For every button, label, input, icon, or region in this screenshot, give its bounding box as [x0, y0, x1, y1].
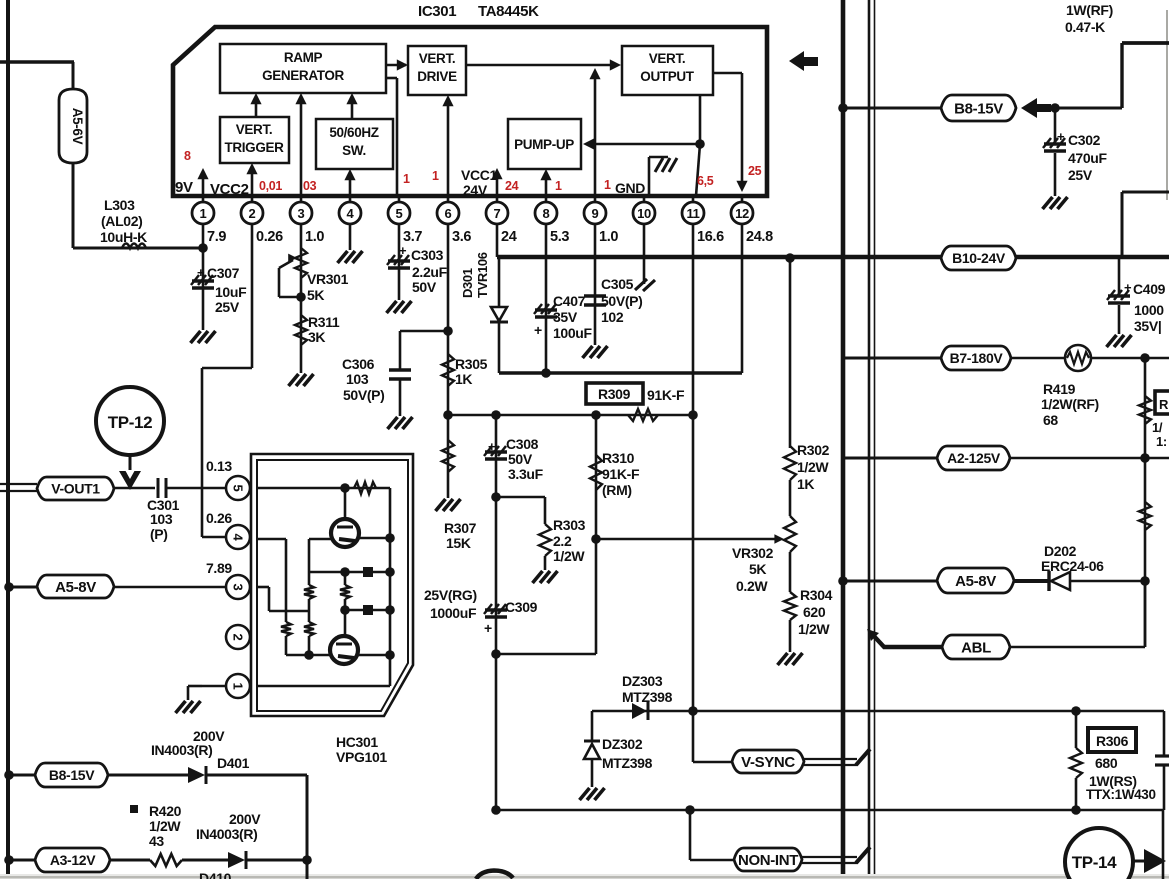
- svg-text:10uF: 10uF: [215, 284, 247, 300]
- svg-text:6,5: 6,5: [697, 174, 714, 188]
- svg-text:A3-12V: A3-12V: [50, 852, 96, 868]
- svg-text:1: 1: [555, 179, 562, 193]
- svg-text:TTX:1W430: TTX:1W430: [1086, 787, 1156, 802]
- svg-text:9: 9: [592, 206, 599, 221]
- svg-text:RAMP: RAMP: [284, 50, 323, 65]
- svg-text:A2-125V: A2-125V: [947, 450, 1001, 466]
- svg-text:DRIVE: DRIVE: [417, 69, 457, 84]
- svg-text:IN4003(R): IN4003(R): [151, 742, 212, 758]
- svg-text:B10-24V: B10-24V: [952, 250, 1006, 266]
- svg-text:1/2W: 1/2W: [798, 621, 830, 637]
- svg-text:0.47-K: 0.47-K: [1065, 19, 1105, 35]
- svg-text:R311: R311: [308, 314, 340, 330]
- svg-text:7: 7: [494, 206, 501, 221]
- svg-text:5K: 5K: [749, 561, 766, 577]
- svg-text:50V(P): 50V(P): [343, 387, 384, 403]
- svg-text:C302: C302: [1068, 132, 1101, 148]
- svg-text:PUMP-UP: PUMP-UP: [514, 137, 574, 152]
- svg-text:5: 5: [231, 485, 246, 492]
- svg-text:50/60HZ: 50/60HZ: [329, 125, 378, 140]
- svg-text:TVR106: TVR106: [475, 252, 490, 298]
- svg-text:C409: C409: [1133, 281, 1166, 297]
- svg-text:2: 2: [249, 206, 256, 221]
- svg-text:1/2W(RF): 1/2W(RF): [1041, 396, 1099, 412]
- svg-text:1: 1: [432, 169, 439, 183]
- svg-text:B8-15V: B8-15V: [954, 100, 1003, 117]
- svg-text:5K: 5K: [307, 287, 324, 303]
- svg-text:1000: 1000: [1134, 302, 1164, 318]
- svg-text:R305: R305: [455, 356, 488, 372]
- svg-text:91K-F: 91K-F: [602, 466, 640, 482]
- svg-text:C407: C407: [553, 293, 586, 309]
- svg-text:9V: 9V: [175, 179, 193, 196]
- svg-text:VR301: VR301: [307, 271, 349, 287]
- svg-text:ERC24-06: ERC24-06: [1041, 558, 1104, 574]
- svg-text:1/2W: 1/2W: [149, 818, 181, 834]
- svg-text:50V(P): 50V(P): [601, 293, 642, 309]
- svg-text:HC301: HC301: [336, 734, 378, 750]
- svg-text:+: +: [488, 439, 496, 454]
- svg-text:R307: R307: [444, 520, 477, 536]
- svg-text:8: 8: [543, 206, 550, 221]
- svg-text:25V: 25V: [215, 299, 240, 315]
- svg-text:VCC1: VCC1: [461, 167, 498, 183]
- svg-text:OUTPUT: OUTPUT: [640, 69, 695, 84]
- svg-text:5.3: 5.3: [550, 229, 569, 245]
- svg-text:1: 1: [231, 683, 246, 690]
- svg-text:D301: D301: [460, 268, 475, 298]
- svg-text:R419: R419: [1043, 381, 1076, 397]
- svg-text:D202: D202: [1044, 543, 1077, 559]
- svg-text:2.2uF: 2.2uF: [412, 264, 448, 280]
- svg-text:3K: 3K: [308, 329, 325, 345]
- svg-text:D401: D401: [217, 755, 250, 771]
- svg-text:43: 43: [149, 833, 164, 849]
- svg-text:TP-12: TP-12: [108, 413, 153, 432]
- svg-text:V-OUT1: V-OUT1: [51, 481, 100, 497]
- svg-text:200V: 200V: [229, 811, 261, 827]
- svg-text:35V|: 35V|: [1134, 318, 1161, 334]
- svg-text:(P): (P): [150, 526, 168, 542]
- svg-text:+: +: [1057, 129, 1065, 144]
- svg-text:A5-6V: A5-6V: [70, 108, 85, 145]
- svg-text:8: 8: [184, 149, 191, 163]
- svg-text:1.0: 1.0: [599, 229, 618, 245]
- svg-text:R302: R302: [797, 442, 830, 458]
- svg-text:2: 2: [231, 634, 246, 641]
- svg-text:R309: R309: [598, 386, 631, 402]
- svg-text:R306: R306: [1096, 733, 1129, 749]
- svg-text:3.3uF: 3.3uF: [508, 466, 544, 482]
- svg-text:5: 5: [396, 206, 403, 221]
- svg-text:D410: D410: [199, 870, 232, 879]
- svg-text:ABL: ABL: [961, 639, 991, 656]
- svg-text:7.9: 7.9: [207, 229, 226, 245]
- svg-text:102: 102: [601, 309, 624, 325]
- svg-text:DZ303: DZ303: [622, 673, 663, 689]
- svg-text:DZ302: DZ302: [602, 736, 643, 752]
- svg-text:R304: R304: [800, 587, 833, 603]
- svg-text:MTZ398: MTZ398: [602, 755, 653, 771]
- svg-text:+: +: [1124, 280, 1132, 295]
- svg-text:3: 3: [298, 206, 305, 221]
- svg-text:A5-8V: A5-8V: [955, 573, 996, 590]
- svg-text:C308: C308: [506, 436, 539, 452]
- svg-text:+: +: [197, 265, 205, 280]
- svg-text:C307: C307: [207, 265, 240, 281]
- svg-text:1/: 1/: [1152, 420, 1163, 435]
- svg-text:+: +: [484, 620, 492, 636]
- svg-text:L303: L303: [104, 197, 135, 213]
- svg-text:7.89: 7.89: [206, 560, 232, 576]
- svg-text:A5-8V: A5-8V: [55, 579, 96, 596]
- svg-text:R303: R303: [553, 517, 586, 533]
- svg-text:470uF: 470uF: [1068, 150, 1108, 166]
- svg-text:VERT.: VERT.: [236, 122, 273, 137]
- svg-text:1W(RF): 1W(RF): [1066, 2, 1113, 18]
- svg-text:+: +: [534, 322, 542, 338]
- svg-text:24: 24: [501, 229, 517, 245]
- svg-text:IC301: IC301: [418, 3, 456, 20]
- svg-text:B7-180V: B7-180V: [950, 350, 1004, 366]
- svg-text:0.26: 0.26: [206, 510, 232, 526]
- svg-text:MTZ398: MTZ398: [622, 689, 673, 705]
- svg-text:R: R: [1159, 397, 1169, 412]
- svg-text:B8-15V: B8-15V: [49, 767, 95, 783]
- svg-text:1K: 1K: [455, 371, 472, 387]
- svg-text:V-SYNC: V-SYNC: [741, 754, 795, 771]
- svg-text:1: 1: [604, 178, 611, 192]
- svg-text:+: +: [399, 243, 407, 258]
- svg-text:4: 4: [231, 534, 246, 542]
- svg-text:25: 25: [748, 164, 762, 178]
- svg-text:1000uF: 1000uF: [430, 605, 477, 621]
- svg-text:680: 680: [1095, 755, 1118, 771]
- svg-text:50V: 50V: [412, 279, 437, 295]
- svg-text:4: 4: [347, 206, 355, 221]
- svg-text:91K-F: 91K-F: [647, 387, 685, 403]
- svg-text:25V: 25V: [1068, 167, 1093, 183]
- svg-text:10: 10: [637, 206, 651, 221]
- svg-text:1: 1: [200, 206, 207, 221]
- svg-text:11: 11: [686, 206, 699, 221]
- svg-text:VERT.: VERT.: [649, 51, 686, 66]
- svg-text:0.26: 0.26: [256, 229, 283, 245]
- svg-text:VR302: VR302: [732, 545, 774, 561]
- svg-text:R420: R420: [149, 803, 182, 819]
- svg-text:0.2W: 0.2W: [736, 578, 768, 594]
- svg-text:103: 103: [346, 371, 369, 387]
- svg-text:TRIGGER: TRIGGER: [224, 140, 284, 155]
- svg-text:GENERATOR: GENERATOR: [262, 68, 344, 83]
- svg-text:IN4003(R): IN4003(R): [196, 826, 257, 842]
- svg-text:SW.: SW.: [342, 143, 366, 158]
- svg-text:(RM): (RM): [602, 482, 632, 498]
- svg-text:0,01: 0,01: [259, 179, 282, 193]
- svg-text:C306: C306: [342, 356, 375, 372]
- svg-text:0.13: 0.13: [206, 458, 232, 474]
- svg-text:C309: C309: [505, 599, 538, 615]
- svg-text:50V: 50V: [508, 451, 533, 467]
- svg-text:16.6: 16.6: [697, 229, 724, 245]
- svg-text:620: 620: [803, 604, 826, 620]
- svg-text:TP-14: TP-14: [1072, 853, 1117, 872]
- svg-text:15K: 15K: [446, 535, 471, 551]
- svg-text:(AL02): (AL02): [101, 213, 142, 229]
- svg-text:24V: 24V: [463, 182, 488, 198]
- svg-text:25V(RG): 25V(RG): [424, 587, 477, 603]
- svg-text:R310: R310: [602, 450, 635, 466]
- svg-text:1K: 1K: [797, 476, 814, 492]
- svg-text:24: 24: [505, 179, 519, 193]
- svg-text:1: 1: [403, 172, 410, 186]
- svg-text:12: 12: [735, 206, 749, 221]
- svg-text:VPG101: VPG101: [336, 749, 387, 765]
- svg-text:03: 03: [303, 179, 317, 193]
- svg-text:3: 3: [231, 584, 246, 591]
- svg-text:1/2W: 1/2W: [797, 459, 829, 475]
- svg-text:NON-INT: NON-INT: [738, 852, 798, 869]
- svg-text:1:: 1:: [1156, 434, 1167, 449]
- svg-text:2.2: 2.2: [553, 533, 572, 549]
- svg-text:6: 6: [445, 206, 452, 221]
- svg-text:TA8445K: TA8445K: [478, 3, 539, 20]
- svg-text:C303: C303: [411, 247, 444, 263]
- svg-text:10uH-K: 10uH-K: [100, 229, 147, 245]
- svg-text:C305: C305: [601, 276, 634, 292]
- svg-text:1.0: 1.0: [305, 229, 324, 245]
- svg-text:VERT.: VERT.: [419, 51, 456, 66]
- svg-text:VCC2: VCC2: [210, 181, 249, 198]
- svg-text:3.6: 3.6: [452, 229, 471, 245]
- svg-text:35V: 35V: [553, 309, 578, 325]
- svg-text:100uF: 100uF: [553, 325, 593, 341]
- svg-text:1/2W: 1/2W: [553, 548, 585, 564]
- svg-text:103: 103: [150, 511, 173, 527]
- svg-text:68: 68: [1043, 412, 1058, 428]
- svg-text:GND: GND: [615, 180, 645, 196]
- svg-text:24.8: 24.8: [746, 229, 773, 245]
